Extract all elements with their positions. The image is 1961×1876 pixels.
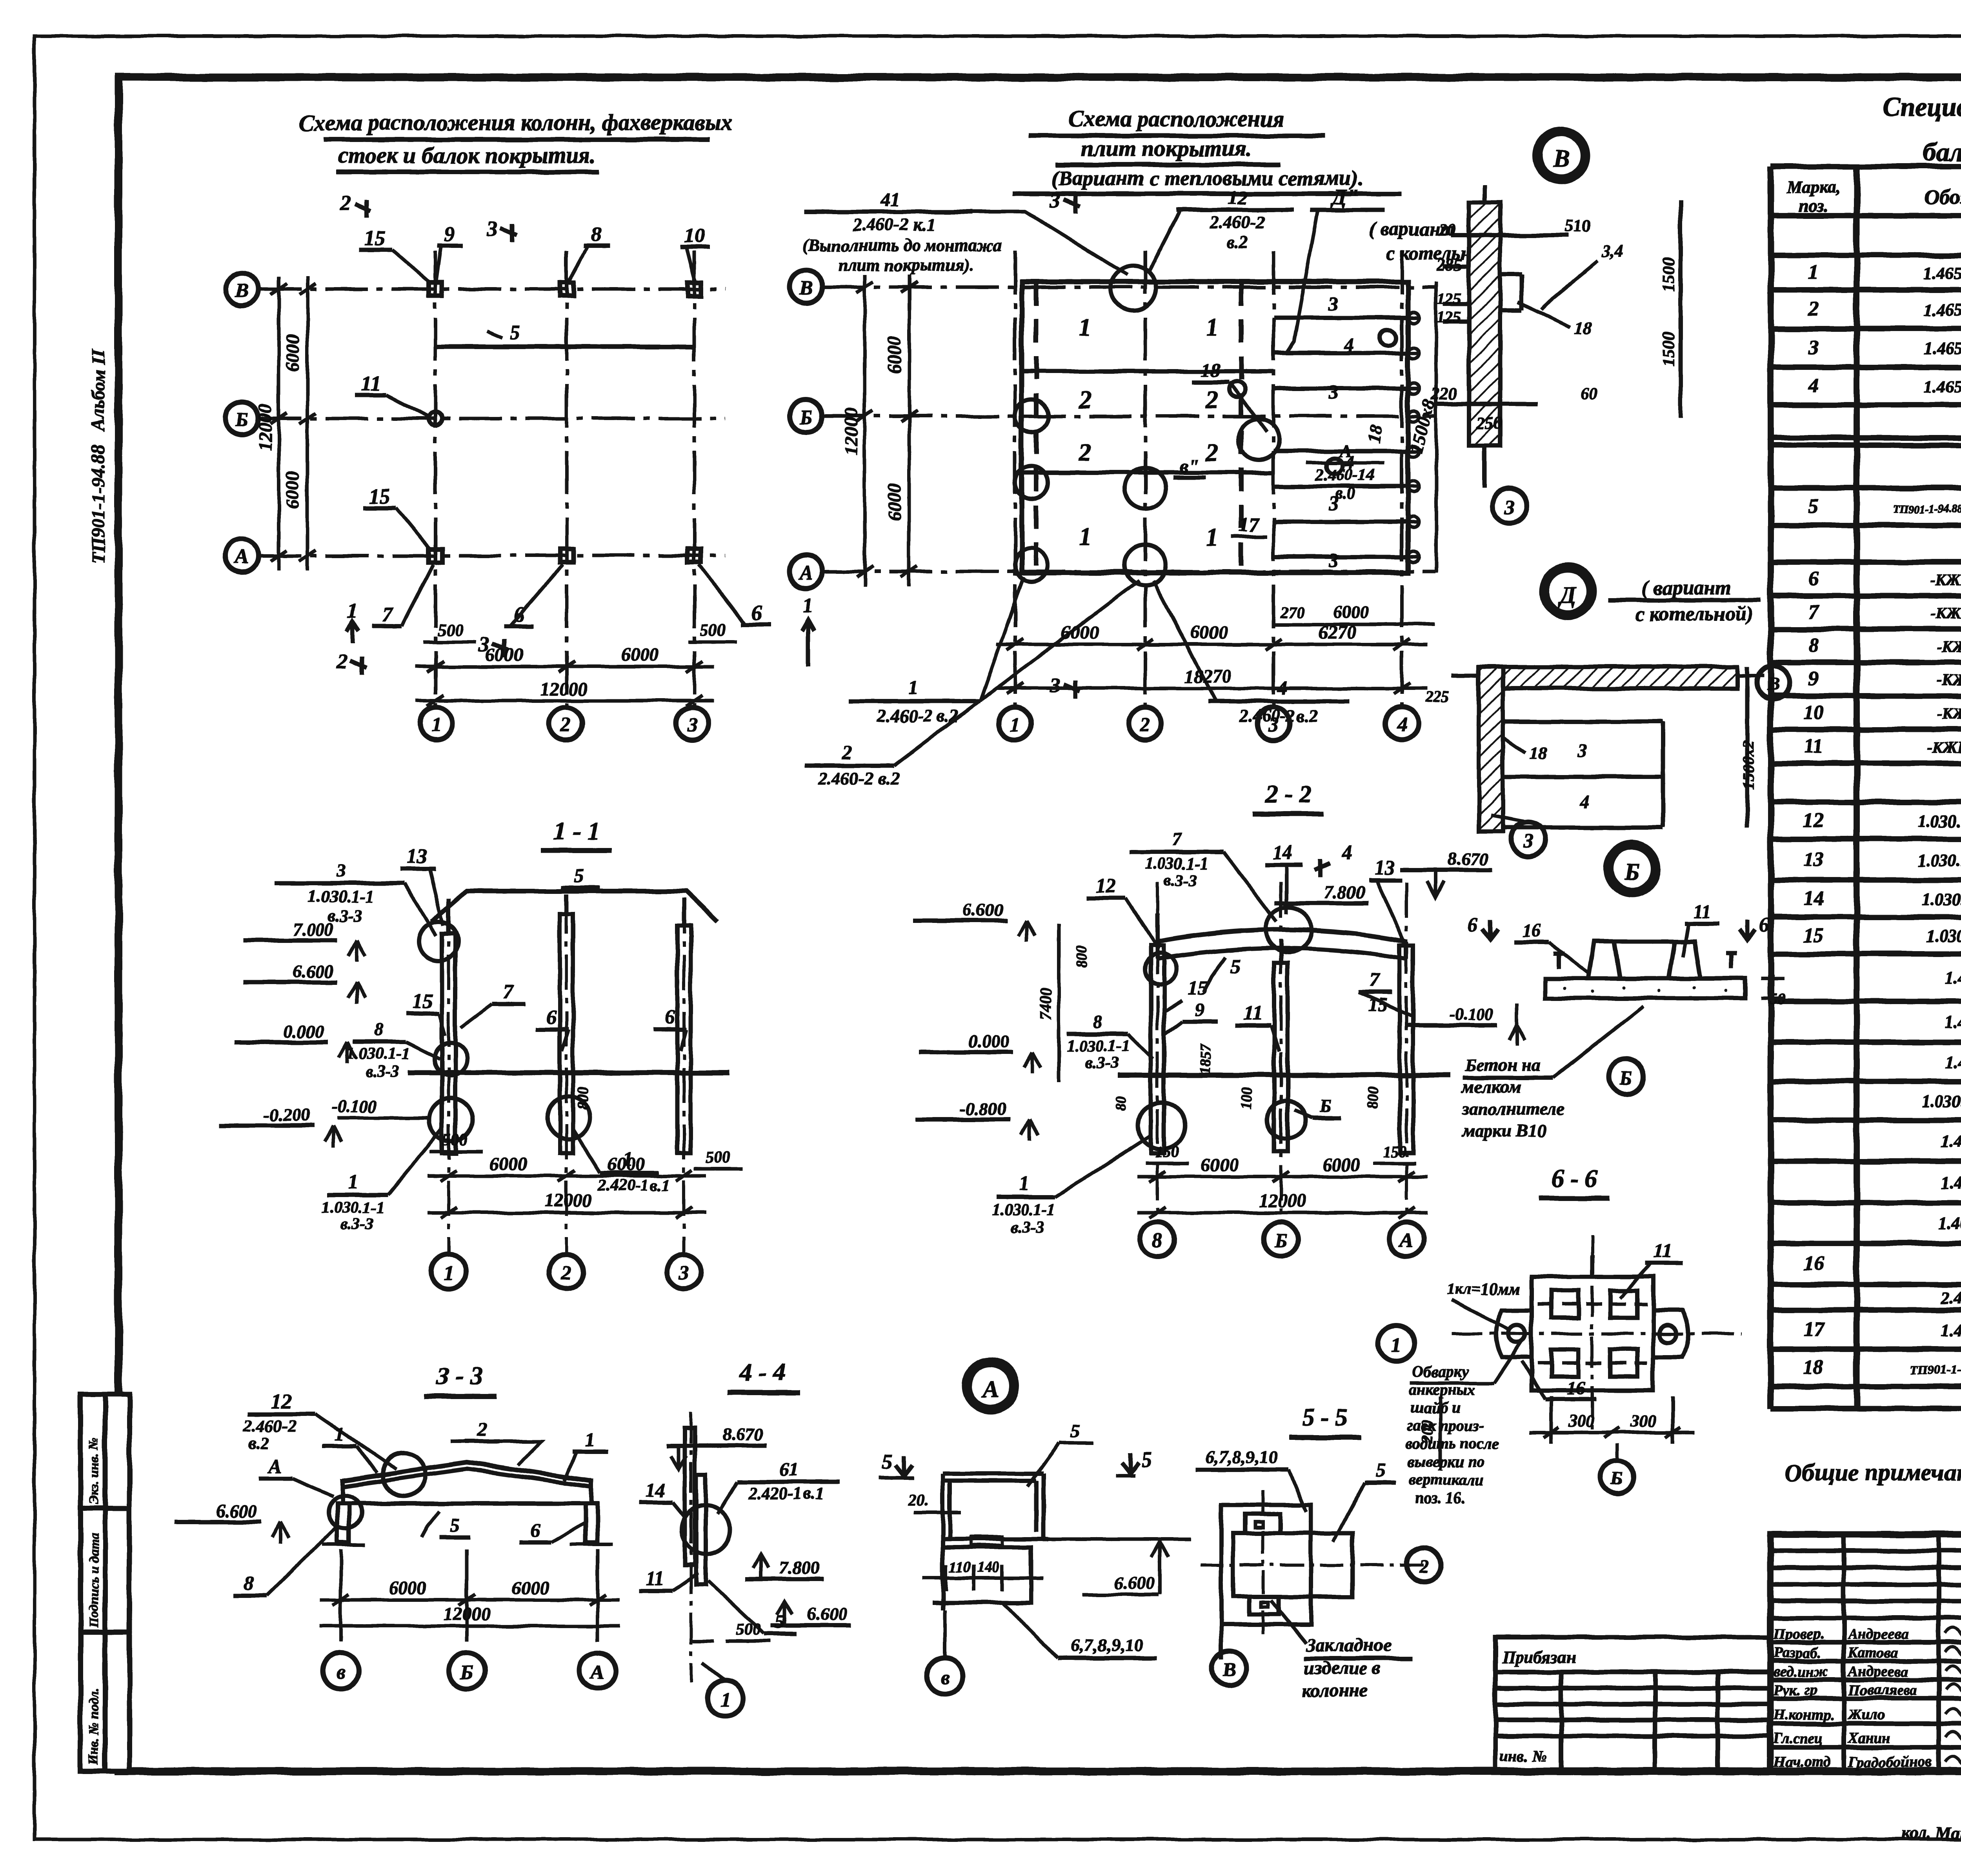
svg-text:3: 3 [1328, 381, 1339, 403]
svg-text:5: 5 [775, 1610, 785, 1632]
svg-text:2: 2 [1140, 714, 1150, 736]
section 1-1 bottom dimensions [427, 1170, 706, 1218]
svg-text:8: 8 [1152, 1230, 1162, 1252]
svg-text:1.400-7 л. 18: 1.400-7 л. 18 [1938, 1214, 1961, 1233]
axis circle в section 3-3 [323, 1653, 359, 1689]
ground line [408, 1070, 729, 1075]
svg-text:1.030.1-1: 1.030.1-1 [322, 1199, 385, 1217]
svg-text:2.460-2: 2.460-2 [1209, 212, 1265, 232]
svg-text:А: А [234, 546, 249, 568]
svg-text:инв. №: инв. № [1500, 1747, 1546, 1765]
svg-text:510: 510 [1565, 216, 1591, 235]
svg-text:Д: Д [1558, 582, 1577, 608]
svg-text:6.600: 6.600 [216, 1501, 257, 1521]
svg-text:500: 500 [700, 620, 726, 639]
svg-text:1: 1 [335, 1423, 344, 1445]
svg-text:в.2: в.2 [1226, 232, 1248, 252]
node Б big circle [1606, 843, 1658, 895]
svg-text:15: 15 [364, 226, 385, 250]
privyazan table [1495, 1637, 1770, 1770]
svg-text:11: 11 [646, 1567, 664, 1589]
svg-text:1.030.1-1.4-2-10: 1.030.1-1.4-2-10 [1926, 926, 1961, 946]
svg-text:8: 8 [1094, 1012, 1103, 1032]
wall vertical section detail (node 3) [1435, 184, 1681, 488]
svg-text:2.460-14 в.0: 2.460-14 в.0 [1941, 1288, 1961, 1307]
svg-text:1.400-7 л.9: 1.400-7 л.9 [1945, 1053, 1961, 1072]
svg-text:15: 15 [1803, 924, 1824, 946]
svg-text:1: 1 [1206, 313, 1218, 341]
6-6 centre lines [1451, 1332, 1741, 1335]
svg-text:3 - 3: 3 - 3 [436, 1362, 482, 1390]
svg-text:балок и плит покрытия.: балок и плит покрытия. [1923, 137, 1961, 167]
svg-text:11: 11 [361, 371, 381, 395]
svg-text:5: 5 [573, 865, 584, 887]
svg-text:9: 9 [1808, 668, 1819, 690]
plate field internal lines left part [1022, 371, 1273, 473]
svg-text:20: 20 [1438, 220, 1456, 239]
svg-text:8: 8 [591, 222, 602, 246]
svg-text:анкерных: анкерных [1409, 1381, 1475, 1398]
svg-text:1: 1 [803, 593, 813, 617]
svg-text:9: 9 [444, 222, 455, 246]
svg-text:3: 3 [1328, 549, 1339, 571]
svg-text:Провер.: Провер. [1773, 1626, 1824, 1642]
svg-text:в.2: в.2 [249, 1434, 269, 1453]
svg-text:водить после: водить после [1406, 1435, 1499, 1452]
svg-text:5: 5 [1376, 1459, 1386, 1481]
svg-text:1.465.1-10/82 в.1: 1.465.1-10/82 в.1 [1924, 339, 1961, 358]
svg-text:500: 500 [706, 1149, 730, 1167]
svg-text:5: 5 [1071, 1420, 1081, 1442]
svg-text:поз.: поз. [1799, 197, 1828, 216]
specification table grid [1771, 166, 1961, 1408]
axis circle В under corner plan [927, 1658, 963, 1694]
svg-text:3: 3 [687, 714, 697, 736]
svg-text:в.3-3: в.3-3 [327, 906, 362, 926]
svg-text:Н.контр.: Н.контр. [1773, 1707, 1834, 1723]
svg-text:3: 3 [1577, 741, 1587, 761]
svg-text:1.030.1-1,4-020-04: 1.030.1-1,4-020-04 [1918, 812, 1961, 831]
svg-text:61: 61 [780, 1459, 799, 1480]
svg-text:6.600: 6.600 [963, 900, 1004, 920]
svg-text:Катова: Катова [1848, 1645, 1899, 1661]
svg-text:5: 5 [1808, 495, 1819, 517]
detail node В top right [1535, 129, 1587, 181]
svg-text:в: в [940, 1667, 949, 1689]
axis circle В right of corner detail [1757, 666, 1790, 699]
section 3-3 roof beam [342, 1462, 591, 1481]
svg-text:Поваляева: Поваляева [1848, 1682, 1917, 1698]
svg-text:8: 8 [374, 1019, 383, 1039]
detail node Д [1542, 566, 1594, 617]
axis circle 2 plan2 bottom [1129, 707, 1162, 740]
axis circle 3 plan2 bottom [1257, 707, 1290, 740]
section 1-1 column axes [449, 898, 684, 1255]
svg-text:выверки по: выверки по [1408, 1453, 1485, 1470]
svg-text:3: 3 [487, 217, 498, 240]
svg-text:Дʺ: Дʺ [1330, 185, 1359, 209]
svg-text:3,4: 3,4 [1602, 242, 1624, 261]
svg-text:1: 1 [1019, 1173, 1029, 1195]
svg-text:1: 1 [1206, 523, 1218, 551]
svg-text:13: 13 [1374, 857, 1395, 879]
svg-text:150: 150 [1383, 1143, 1406, 1161]
axis circle 3 under wall detail [1492, 489, 1527, 523]
svg-text:7: 7 [382, 603, 394, 626]
svg-text:5: 5 [1230, 955, 1241, 977]
axis circle А plan1 [226, 539, 258, 572]
svg-text:18270: 18270 [1184, 666, 1232, 687]
svg-text:плит покрытия).: плит покрытия). [838, 255, 973, 275]
svg-text:2: 2 [477, 1418, 488, 1440]
svg-text:11: 11 [1654, 1239, 1672, 1261]
svg-text:1.454-24 в.1: 1.454-24 в.1 [1941, 1321, 1961, 1340]
plan1 left dimensions [271, 277, 316, 571]
svg-text:Инв. № подл.: Инв. № подл. [87, 1689, 101, 1765]
svg-text:500: 500 [443, 1131, 468, 1149]
svg-text:11: 11 [1243, 1002, 1262, 1024]
svg-text:12: 12 [1228, 186, 1247, 208]
svg-text:2: 2 [1078, 439, 1091, 466]
svg-text:500: 500 [437, 620, 463, 639]
svg-text:5: 5 [510, 322, 520, 344]
svg-text:3: 3 [679, 1262, 689, 1284]
svg-text:6000: 6000 [282, 471, 303, 509]
svg-text:ТП901-1-94.88-КЖИ1-ОП1: ТП901-1-94.88-КЖИ1-ОП1 [1910, 1363, 1961, 1377]
axis circle В plan2 [789, 271, 822, 304]
svg-text:6000: 6000 [389, 1578, 427, 1598]
svg-text:Б: Б [1274, 1230, 1287, 1252]
svg-text:13: 13 [1803, 848, 1824, 871]
axis circle Б under 6-6 [1601, 1460, 1634, 1493]
svg-text:1 - 1: 1 - 1 [553, 817, 599, 845]
svg-text:6000: 6000 [489, 1154, 527, 1174]
svg-text:6: 6 [1468, 914, 1478, 936]
svg-text:18: 18 [1575, 318, 1592, 337]
svg-text:-КЖИ1-К66-4: -КЖИ1-К66-4 [1937, 671, 1961, 689]
svg-text:13: 13 [407, 845, 427, 868]
svg-text:(Вариант с тепловыми сетями).: (Вариант с тепловыми сетями). [1051, 166, 1363, 190]
svg-text:в: в [336, 1661, 345, 1684]
svg-text:110: 110 [949, 1559, 971, 1576]
svg-text:1.400-7 л.3: 1.400-7 л.3 [1945, 968, 1961, 988]
svg-text:6000: 6000 [511, 1578, 549, 1598]
svg-text:6000: 6000 [884, 483, 905, 521]
svg-text:14: 14 [1272, 841, 1293, 864]
svg-text:в.3-3: в.3-3 [366, 1063, 399, 1081]
svg-text:изделие в: изделие в [1304, 1658, 1381, 1678]
svg-text:плит покрытия.: плит покрытия. [1081, 136, 1252, 161]
svg-text:2: 2 [1078, 386, 1091, 413]
svg-text:1500х2: 1500х2 [1740, 740, 1758, 790]
svg-text:12: 12 [1803, 809, 1824, 832]
svg-text:4: 4 [1808, 375, 1819, 397]
svg-text:1: 1 [1391, 1334, 1401, 1356]
svg-text:2.460-2 в.2: 2.460-2 в.2 [818, 768, 900, 788]
joint circles section 2-2 [1266, 907, 1311, 952]
axis circle 1 plan1 bottom [420, 707, 453, 740]
title block inner lines [1770, 1534, 1961, 1770]
svg-text:6000: 6000 [1201, 1154, 1239, 1175]
svg-text:225: 225 [1425, 688, 1449, 706]
svg-text:мелком: мелком [1461, 1077, 1521, 1097]
svg-text:-КЖИ1-К66-3: -КЖИ1-К66-3 [1937, 638, 1961, 655]
svg-text:1: 1 [585, 1429, 595, 1451]
svg-text:6 - 6: 6 - 6 [1552, 1164, 1597, 1192]
svg-text:Андреева: Андреева [1847, 1626, 1908, 1642]
title block outline [1770, 1534, 1961, 1770]
svg-text:-КЖИ1-К66-6-2: -КЖИ1-К66-6-2 [1930, 604, 1961, 622]
svg-text:Б: Б [799, 406, 812, 429]
svg-text:В: В [1767, 674, 1780, 695]
svg-text:7: 7 [1808, 601, 1819, 623]
svg-text:5: 5 [450, 1514, 460, 1536]
svg-text:Спецификация к схемам располож: Спецификация к схемам расположения колон… [1883, 92, 1961, 122]
svg-text:3: 3 [337, 861, 346, 881]
svg-text:А: А [1399, 1230, 1413, 1252]
svg-text:Обварку: Обварку [1412, 1363, 1469, 1380]
svg-text:Градобойнов: Градобойнов [1848, 1754, 1932, 1770]
svg-text:кол. Машкова: кол. Машкова [1902, 1823, 1961, 1843]
svg-text:Прибязан: Прибязан [1502, 1648, 1576, 1667]
svg-text:2.460-2 к.1: 2.460-2 к.1 [852, 215, 935, 235]
svg-text:18: 18 [1201, 359, 1221, 381]
svg-text:в.3-3: в.3-3 [1085, 1054, 1119, 1072]
svg-text:285: 285 [1437, 255, 1463, 275]
svg-text:1.030.1-1.4-1-240: 1.030.1-1.4-1-240 [1922, 1092, 1961, 1111]
svg-text:2.460-2 в.2: 2.460-2 в.2 [877, 706, 959, 726]
joint circles 3-3 [382, 1453, 426, 1496]
svg-text:2: 2 [560, 714, 571, 736]
svg-text:стоек и балок покрытия.: стоек и балок покрытия. [338, 142, 596, 168]
svg-text:7.800: 7.800 [1324, 882, 1365, 902]
svg-text:60: 60 [1581, 384, 1598, 403]
plan2 left dimensions [857, 275, 917, 586]
section 5-5 drawing [1221, 1505, 1353, 1659]
svg-text:1: 1 [1010, 714, 1020, 736]
svg-text:вʺ: вʺ [1179, 455, 1199, 477]
plate numbers [1078, 313, 1218, 551]
svg-text:2: 2 [1205, 439, 1218, 466]
svg-text:колонне: колонне [1302, 1680, 1368, 1701]
svg-text:6000: 6000 [1061, 622, 1099, 643]
svg-text:1: 1 [1079, 313, 1091, 341]
svg-text:Общие примечания смотреть: Общие примечания смотреть лист 1. [1785, 1459, 1961, 1486]
svg-text:1.030.1-1: 1.030.1-1 [308, 887, 375, 906]
svg-text:14: 14 [646, 1479, 665, 1501]
axis circle Б section 2-2 [1264, 1222, 1298, 1257]
svg-text:11: 11 [1804, 735, 1823, 757]
svg-text:6000: 6000 [1190, 622, 1228, 643]
svg-text:вертикали: вертикали [1410, 1471, 1484, 1488]
svg-text:Закладное: Закладное [1306, 1635, 1392, 1656]
svg-text:100: 100 [1238, 1087, 1255, 1110]
svg-text:7: 7 [1172, 829, 1182, 849]
svg-text:12: 12 [271, 1390, 292, 1413]
right strip section lines [1273, 318, 1408, 557]
svg-text:16: 16 [1803, 1252, 1824, 1275]
svg-text:6,7,8,9,10: 6,7,8,9,10 [1205, 1447, 1277, 1467]
svg-text:250: 250 [1476, 413, 1502, 432]
svg-text:1.465.1-10/82 в.1: 1.465.1-10/82 в.1 [1924, 300, 1961, 319]
svg-text:В: В [1553, 146, 1569, 172]
svg-text:4: 4 [1342, 841, 1352, 864]
svg-text:Схема расположения: Схема расположения [1069, 106, 1285, 131]
axis circle Б plan2 [789, 400, 822, 433]
dim 110 140 [922, 1565, 1043, 1591]
svg-text:1.400-7 л.9: 1.400-7 л.9 [1945, 1013, 1961, 1032]
svg-text:2.460-14: 2.460-14 [1315, 466, 1375, 484]
axis circle 3 under corner detail [1511, 822, 1545, 857]
section 2-2 roof beam [1157, 930, 1406, 941]
svg-text:ТП901-1-94.88 Альбом II: ТП901-1-94.88 Альбом II [88, 349, 109, 564]
svg-text:1.030.1-1: 1.030.1-1 [992, 1201, 1055, 1219]
svg-text:4 - 4: 4 - 4 [739, 1358, 786, 1386]
svg-text:270: 270 [1280, 604, 1304, 621]
axis circle 1 section 1-1 [431, 1254, 466, 1289]
svg-text:2: 2 [1808, 298, 1819, 320]
svg-text:-0.200: -0.200 [263, 1105, 310, 1125]
svg-text:2 - 2: 2 - 2 [1265, 780, 1311, 808]
svg-text:6: 6 [1808, 568, 1819, 590]
svg-text:2: 2 [1419, 1555, 1429, 1577]
svg-text:1500: 1500 [1659, 257, 1678, 292]
svg-text:16: 16 [1522, 920, 1541, 941]
column squares plan1 [429, 282, 701, 562]
detail node А [965, 1360, 1017, 1412]
svg-text:500: 500 [736, 1621, 761, 1639]
svg-text:-0.100: -0.100 [1449, 1004, 1493, 1024]
svg-text:10: 10 [684, 224, 706, 247]
svg-text:5 - 5: 5 - 5 [1302, 1403, 1348, 1431]
svg-text:6.600: 6.600 [293, 961, 334, 981]
svg-text:в.0: в.0 [1335, 485, 1355, 503]
svg-text:150: 150 [1155, 1143, 1179, 1161]
svg-text:В: В [799, 277, 813, 300]
svg-text:1: 1 [431, 714, 441, 736]
plan2 bottom dimensions [996, 639, 1428, 694]
svg-text:4: 4 [1344, 333, 1354, 355]
axis circle 8 section 2-2 [1140, 1222, 1175, 1257]
svg-text:1.465.1-10/82 в.1: 1.465.1-10/82 в.1 [1924, 377, 1961, 396]
svg-text:Схема расположения колонн, фах: Схема расположения колонн, фахверкавых [299, 110, 732, 135]
svg-text:800: 800 [574, 1086, 592, 1110]
svg-text:1.030.1-1,4-020-05: 1.030.1-1,4-020-05 [1918, 851, 1961, 870]
pipe circles [1380, 330, 1396, 346]
svg-text:6.600: 6.600 [807, 1604, 848, 1624]
fachwerk post pos11 [429, 412, 442, 425]
svg-text:Гл.спец: Гл.спец [1773, 1730, 1823, 1747]
svg-text:марки В10: марки В10 [1461, 1121, 1546, 1141]
svg-text:Б: Б [235, 409, 248, 431]
svg-text:9: 9 [1195, 998, 1205, 1020]
svg-text:12000: 12000 [841, 408, 862, 455]
svg-text:6: 6 [751, 601, 762, 624]
svg-text:14: 14 [1803, 887, 1824, 910]
axis circle 4 plan2 bottom [1385, 707, 1418, 740]
svg-text:6270: 6270 [1319, 622, 1356, 643]
signature rows text [1773, 1626, 1961, 1770]
svg-text:80: 80 [1113, 1097, 1129, 1112]
svg-text:1857: 1857 [1197, 1043, 1213, 1074]
svg-text:Обозначение: Обозначение [1925, 185, 1961, 209]
svg-text:Марка,: Марка, [1786, 178, 1841, 197]
svg-text:6000: 6000 [607, 1154, 645, 1174]
beam line pos5 [435, 344, 694, 349]
joint circles [419, 922, 458, 961]
svg-text:Андреева: Андреева [1847, 1663, 1908, 1680]
svg-text:12000: 12000 [255, 404, 276, 451]
svg-text:Б: Б [1619, 1067, 1632, 1089]
svg-text:шайб и: шайб и [1410, 1399, 1461, 1416]
axis circle Б plan1 [226, 402, 258, 435]
axis circle 2 plan1 bottom [549, 707, 582, 740]
svg-text:А: А [1338, 441, 1352, 461]
svg-text:17: 17 [1803, 1318, 1825, 1341]
svg-text:1: 1 [720, 1689, 730, 1711]
svg-text:Бетон на: Бетон на [1464, 1055, 1541, 1075]
plan2 horizontal axis lines [822, 287, 1435, 571]
svg-text:3: 3 [1808, 337, 1819, 359]
svg-text:20.: 20. [908, 1491, 929, 1509]
svg-text:Подпись и дата: Подпись и дата [87, 1533, 101, 1628]
svg-text:6: 6 [1759, 914, 1769, 936]
svg-text:(Выполнить до монтажа: (Выполнить до монтажа [802, 236, 1002, 255]
section 2-2 columns / fachwerk posts [1151, 914, 1413, 1153]
section 2-2 bottom dimensions [1137, 1171, 1428, 1218]
svg-text:гаек произ-: гаек произ- [1407, 1417, 1484, 1434]
svg-text:Нач.отд: Нач.отд [1773, 1754, 1830, 1770]
svg-text:А: А [981, 1376, 999, 1403]
svg-text:-КЖИ1-6КФ79-1: -КЖИ1-6КФ79-1 [1927, 739, 1961, 756]
svg-text:140: 140 [977, 1559, 999, 1576]
svg-text:7: 7 [503, 981, 514, 1003]
axis circle 3 plan1 bottom [676, 707, 709, 740]
axis circle Б under base detail [1609, 1059, 1643, 1094]
svg-text:1.030.1-1: 1.030.1-1 [1145, 855, 1208, 873]
svg-text:0.000: 0.000 [284, 1021, 324, 1041]
6-6 base plan [1496, 1255, 1688, 1390]
section 1-1 roof beam [431, 891, 718, 922]
joint marks [1111, 266, 1156, 311]
svg-text:18: 18 [1530, 744, 1547, 763]
plan2 vertical column axes [1015, 251, 1402, 707]
svg-text:6,7,8,9,10: 6,7,8,9,10 [1071, 1635, 1143, 1655]
svg-text:125: 125 [1437, 308, 1461, 326]
svg-text:Разраб.: Разраб. [1773, 1645, 1821, 1661]
left margin stamp table [80, 1394, 129, 1771]
corner roof detail (node Д view) [1451, 667, 1747, 832]
plan1 bottom dimensions [416, 661, 714, 706]
svg-text:2: 2 [337, 650, 348, 673]
svg-text:1.400-7 л.17: 1.400-7 л.17 [1941, 1132, 1961, 1151]
svg-text:Рук. гр: Рук. гр [1773, 1682, 1817, 1698]
svg-text:2.460-2: 2.460-2 [243, 1416, 297, 1436]
svg-text:1.030.1-1: 1.030.1-1 [347, 1045, 410, 1063]
plate field outline [1022, 282, 1408, 573]
svg-text:6000: 6000 [486, 644, 523, 665]
svg-text:7.800: 7.800 [779, 1558, 820, 1578]
svg-text:2: 2 [561, 1262, 571, 1284]
svg-text:в.3-3: в.3-3 [1164, 872, 1197, 890]
svg-text:3: 3 [1328, 292, 1339, 314]
table header [1786, 178, 1961, 217]
svg-text:Жило: Жило [1847, 1707, 1885, 1723]
svg-text:А: А [590, 1661, 605, 1684]
svg-text:6.600: 6.600 [1115, 1573, 1155, 1593]
svg-text:ТП901-1-94.88-КЖИ1-1БДР12-3АIV: ТП901-1-94.88-КЖИ1-1БДР12-3АIVт [1893, 503, 1961, 515]
svg-text:12000: 12000 [1259, 1190, 1306, 1211]
